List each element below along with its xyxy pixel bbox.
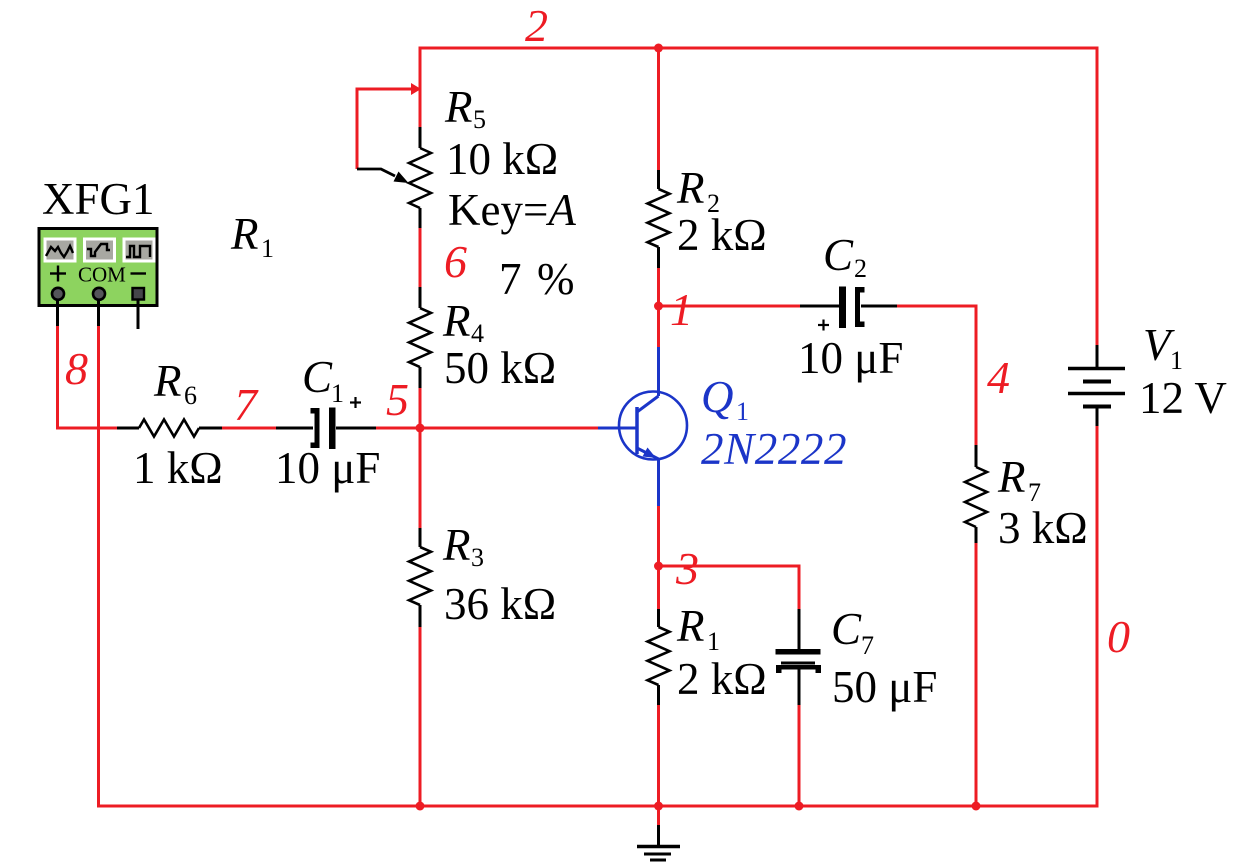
transistor Q1 base bar [635,407,639,454]
node 2 label [525,0,548,51]
wire R7 bottom to ground rail [975,543,978,806]
V1 label [1143,320,1183,375]
XFG1 minus lead stub [137,299,140,329]
wire R5 wiper loop [357,89,419,169]
svg-text:1: 1 [736,397,749,426]
capacitor C7 negative curved plate [776,662,821,674]
svg-text:5: 5 [473,105,486,134]
XFG1 minus terminal label [131,272,147,274]
svg-text:50 kΩ: 50 kΩ [444,343,556,393]
junction C7 at ground rail [795,802,804,811]
wire net 3 down to R1 [657,566,660,609]
svg-text:3 kΩ: 3 kΩ [998,503,1088,553]
wire net 5 horizontal base feed [376,427,598,430]
C1 polarity plus [350,397,361,408]
wire net 6 between R5 and R4 [419,228,422,287]
svg-text:R: R [442,296,471,346]
transistor Q1 base lead blue [598,427,637,430]
wire net 1 horizontal to C2 [659,305,801,308]
capacitor C1 leads [276,427,376,430]
svg-text:R: R [444,82,473,132]
R4 label [442,296,484,348]
svg-text:C: C [831,604,862,654]
R5 value 10 kOhm [446,134,558,184]
wire net 3 horizontal to C7 [659,566,800,609]
stray R1 label [230,209,274,263]
node 7 label [234,379,259,430]
transistor Q1 emitter arrowhead [643,448,657,459]
junction R1 at ground rail [654,802,663,811]
XFG1 plus terminal knob [52,288,65,301]
svg-text:7: 7 [234,379,259,430]
wire C7 bottom to ground rail [798,705,801,806]
R2 value 2 kOhm [677,210,767,260]
capacitor C7 bottom lead [798,669,801,705]
resistor R4 zigzag body [409,308,431,367]
XFG1 square button [123,238,156,263]
svg-text:2 kΩ: 2 kΩ [677,210,767,260]
svg-text:0: 0 [1107,611,1130,662]
svg-text:R: R [997,452,1026,502]
XFG1 plus lead stub [56,299,59,326]
Q1 type 2N2222 [701,424,847,474]
R4 value 50 kOhm [444,343,556,393]
XFG1 triangle button [83,238,116,263]
svg-text:4: 4 [987,352,1010,403]
svg-text:36 kΩ: 36 kΩ [444,579,556,629]
R1 value 2 kOhm [677,654,767,704]
capacitor C2 negative curved plate [855,287,865,327]
resistor R1 leads [657,609,660,705]
capacitor C7 positive plate [776,649,821,655]
transistor Q1 emitter diagonal [637,448,659,459]
node 0 label [1107,611,1130,662]
transistor Q1 collector diagonal [637,396,659,412]
svg-text:Q: Q [701,372,734,422]
node 4 label [987,352,1010,403]
V1 value 12 V [1139,373,1227,423]
wire R3 bottom to ground rail [419,627,422,806]
resistor R4 leads [419,287,422,388]
svg-text:1: 1 [707,627,720,656]
capacitor C2 leads [800,305,897,308]
ground stub wire [657,806,660,825]
svg-text:10 kΩ: 10 kΩ [446,134,558,184]
C1 label [302,352,344,408]
svg-text:50 μF: 50 μF [832,662,937,712]
XFG1 COM terminal knob [93,288,106,301]
resistor R3 zigzag body [409,547,431,605]
svg-text:2: 2 [854,254,867,283]
resistor R3 leads [419,528,422,627]
wire net 5 vertical through junction [419,388,422,528]
R5 label [444,82,486,134]
transistor Q1 circle [619,392,687,460]
wire R2 to node 1 [657,268,660,347]
svg-text:12 V: 12 V [1139,373,1227,423]
node 8 label [65,343,88,394]
R1 label [676,601,720,656]
junction R7 at ground rail [972,802,981,811]
wire net 2 down right side to V1 [1096,47,1099,346]
wire COM terminal down to ground rail [99,326,421,806]
XFG1 COM lead stub [97,299,100,326]
C2 polarity plus [818,320,829,331]
wire net 2 down to R5 [419,47,422,128]
svg-text:COM: COM [78,263,126,287]
svg-text:5: 5 [386,374,409,425]
capacitor C7 top lead [798,609,801,649]
node 3 junction dot [654,562,663,571]
svg-text:6: 6 [444,236,467,287]
capacitor C1 negative curved plate [311,408,320,448]
svg-text:2N2222: 2N2222 [701,424,847,474]
R7 label [997,452,1041,507]
wire V1 bottom to ground rail [1096,426,1099,808]
resistor R2 zigzag body [648,189,670,247]
svg-text:1: 1 [331,379,344,408]
node 5 junction dot [416,424,425,433]
R7 value 3 kOhm [998,503,1088,553]
resistor R7 leads [975,445,978,543]
C1 value 10 uF [275,443,380,493]
R3 value 36 kOhm [444,579,556,629]
wiper black lead [357,169,395,176]
svg-text:R: R [153,356,182,406]
R3 label [442,520,484,572]
battery V1 top lead [1096,345,1099,368]
R6 value 1 kOhm [133,443,223,493]
XFG1 minus terminal knob [133,288,145,300]
svg-text:C: C [302,352,333,402]
svg-text:XFG1: XFG1 [42,174,155,224]
ground symbol [637,825,680,860]
svg-text:Key=A: Key=A [448,185,576,235]
function generator XFG1 body [39,229,157,306]
Q1 label [701,372,749,426]
svg-text:7: 7 [499,254,522,304]
svg-text:C: C [823,230,854,280]
svg-text:R: R [442,520,471,570]
node 6 label [444,236,467,287]
svg-text:10 μF: 10 μF [275,443,380,493]
R5 Key=A label [448,185,576,235]
wire net 0 ground rail [99,805,1098,808]
wire net 2 down to R2 [657,48,660,170]
resistor R6 leads [117,427,222,430]
XFG1 COM label [78,263,126,287]
wiper arrowhead [394,172,409,184]
node 5 label [386,374,409,425]
wire net 2 top horizontal [420,47,1097,50]
resistor R1 zigzag body [648,627,670,685]
resistor R2 leads [657,170,660,268]
svg-text:8: 8 [65,343,88,394]
node 1 junction dot [654,302,663,311]
C7 label [831,604,874,660]
node 1 label [670,284,693,335]
svg-text:10 μF: 10 μF [798,333,903,383]
svg-text:R: R [676,163,705,213]
C2 label [823,230,867,283]
svg-text:1: 1 [261,234,274,263]
svg-text:7: 7 [861,631,874,660]
svg-text:1 kΩ: 1 kΩ [133,443,223,493]
transistor Q1 collector wire [657,306,660,396]
resistor R6 zigzag body [139,420,199,437]
R5 percent label 7% [499,254,575,304]
svg-text:%: % [537,254,575,304]
XFG1 label [42,174,155,224]
svg-text:2 kΩ: 2 kΩ [677,654,767,704]
wire R1 bottom to ground rail [657,705,660,806]
junction top of R2 branch [654,44,663,53]
junction R3 at ground rail [416,802,425,811]
svg-text:6: 6 [184,381,197,410]
XFG1 plus terminal label [50,266,66,282]
wire net 8 from plus terminal [58,326,118,428]
C7 value 50 uF [832,662,937,712]
node 3 label [675,543,699,594]
battery V1 plates [1068,369,1125,407]
resistor R7 zigzag body [965,467,987,527]
XFG1 sine button [44,238,77,263]
svg-text:R: R [230,209,259,259]
battery V1 bottom lead [1096,407,1099,427]
R2 label [676,163,720,218]
capacitor C1 positive plate [329,408,336,450]
wiper junction arrow on R5 top terminal [411,83,421,95]
svg-text:R: R [676,601,705,651]
transistor Q1 emitter wire [657,459,660,566]
svg-text:2: 2 [525,0,548,51]
potentiometer R5 zigzag body [409,148,431,208]
svg-text:3: 3 [471,543,484,572]
svg-text:1: 1 [670,284,693,335]
svg-text:1: 1 [1170,346,1183,375]
potentiometer R5 leads [419,127,422,228]
wire net 7 [222,427,276,430]
capacitor C2 positive plate [839,287,846,329]
wire net 4 from C2 down to R7 [897,306,976,445]
R6 label [153,356,197,410]
C2 value 10 uF [798,333,903,383]
svg-text:3: 3 [675,543,699,594]
